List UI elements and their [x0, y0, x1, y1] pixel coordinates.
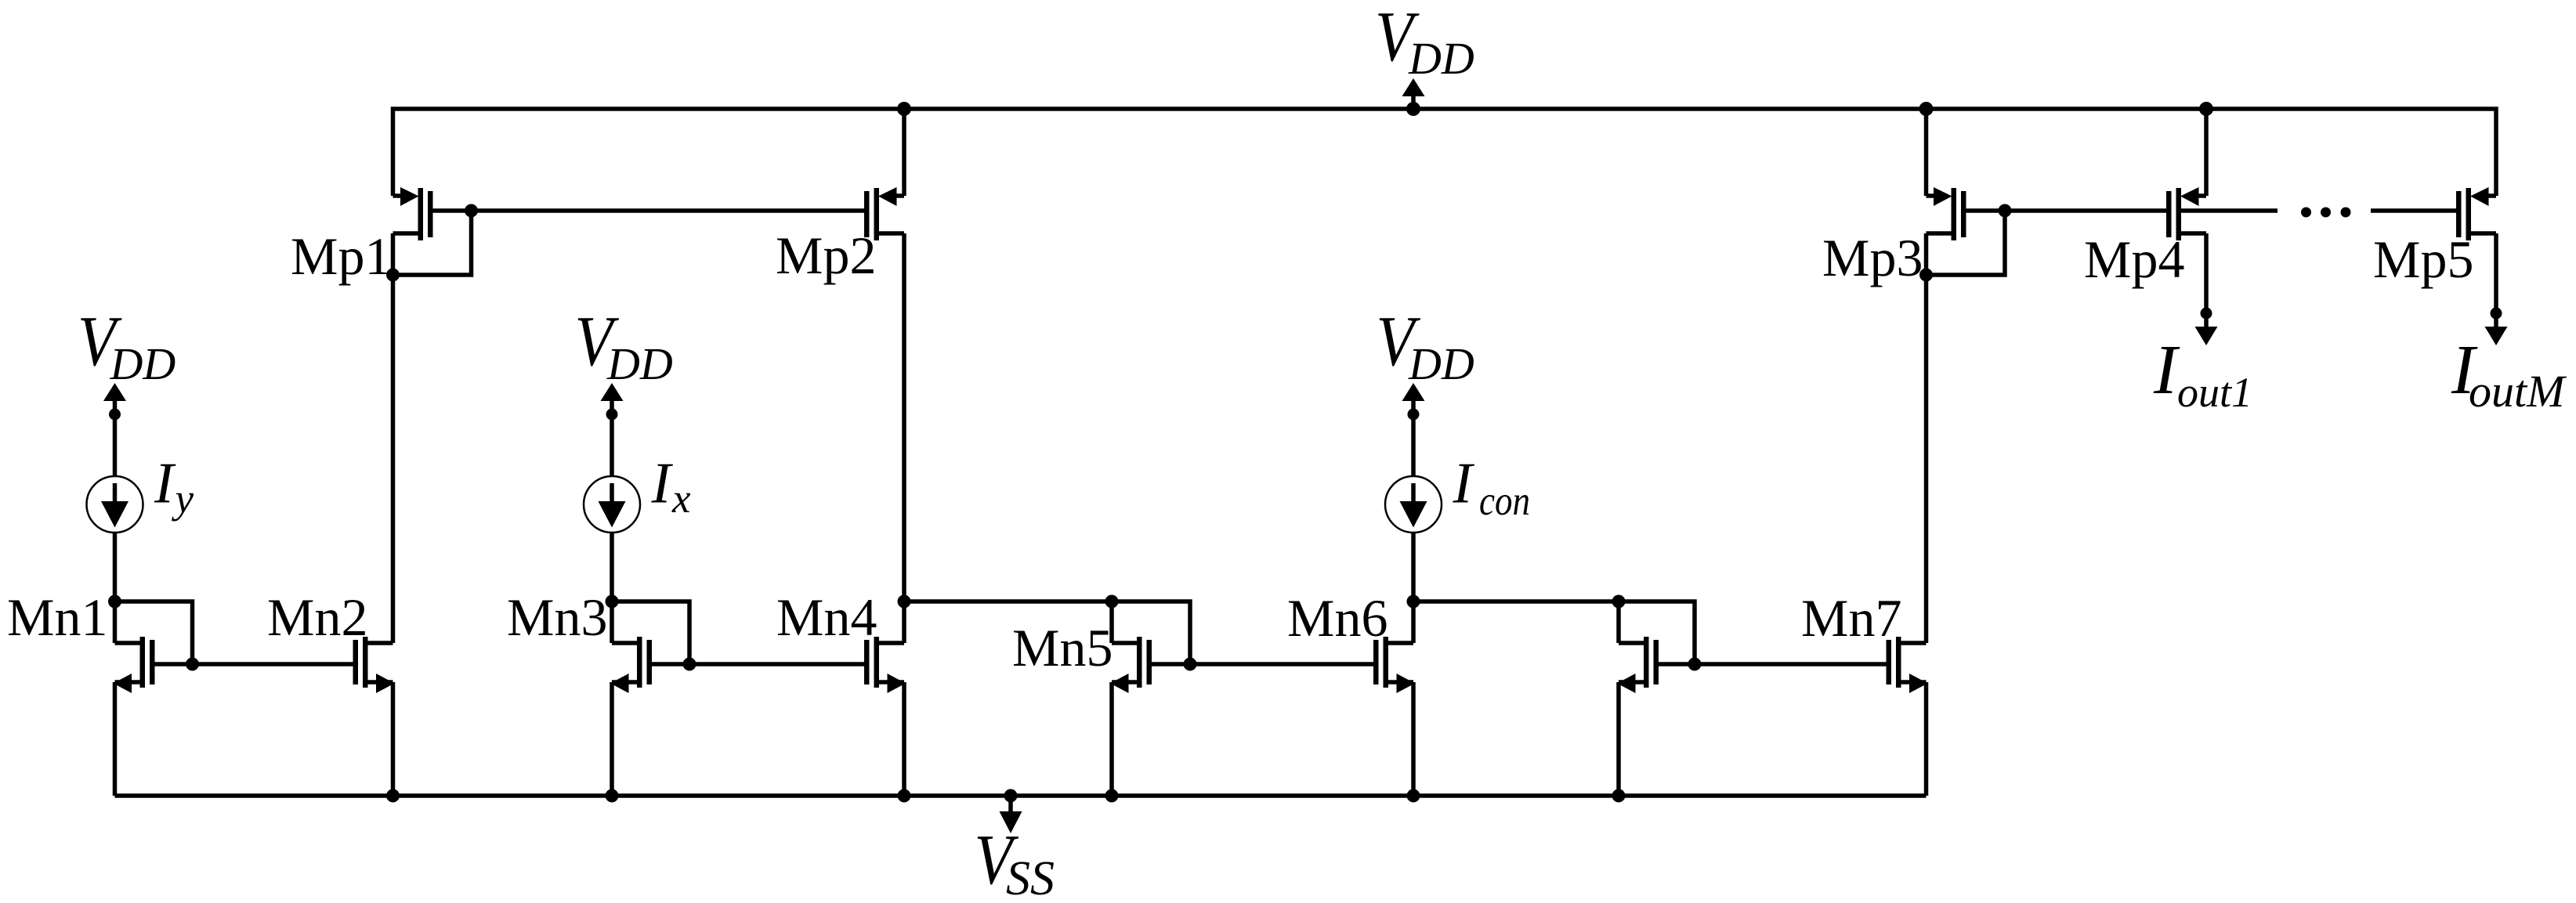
svg-text:I: I — [1453, 452, 1475, 516]
svg-text:I: I — [651, 452, 674, 516]
svg-text:Mn6: Mn6 — [1287, 588, 1387, 648]
svg-text:I: I — [154, 452, 176, 516]
svg-text:Mn5: Mn5 — [1012, 618, 1113, 677]
svg-text:out1: out1 — [2177, 369, 2252, 416]
svg-text:Mn7: Mn7 — [1801, 588, 1901, 648]
svg-text:y: y — [172, 476, 194, 522]
svg-text:x: x — [671, 476, 691, 522]
svg-text:Mn1: Mn1 — [7, 587, 107, 647]
svg-text:Mn4: Mn4 — [776, 587, 877, 647]
svg-text:DD: DD — [606, 338, 673, 389]
svg-text:DD: DD — [110, 338, 176, 389]
svg-text:Mp3: Mp3 — [1822, 228, 1923, 287]
svg-text:DD: DD — [1408, 338, 1474, 389]
svg-text:SS: SS — [1006, 852, 1055, 903]
svg-text:con: con — [1479, 478, 1530, 524]
svg-text:Mp2: Mp2 — [776, 226, 876, 285]
svg-text:Mp4: Mp4 — [2084, 229, 2184, 289]
svg-text:Mn3: Mn3 — [507, 587, 607, 647]
svg-text:Mn2: Mn2 — [267, 587, 367, 647]
svg-text:outM: outM — [2469, 366, 2567, 417]
svg-text:Mp5: Mp5 — [2373, 229, 2473, 289]
svg-text:Mp1: Mp1 — [291, 226, 391, 286]
svg-text:I: I — [2153, 331, 2180, 409]
svg-text:DD: DD — [1408, 33, 1474, 84]
